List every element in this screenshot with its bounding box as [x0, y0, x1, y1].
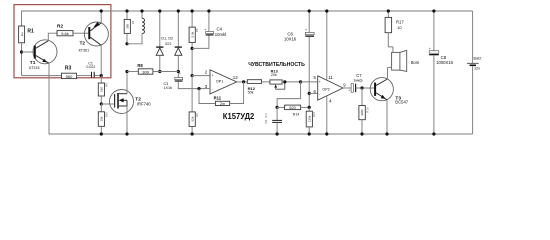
- node: top rail / R4: [125, 9, 128, 12]
- wire: top supply rail: [22, 11, 473, 26]
- node: top rail / T2: [100, 9, 103, 12]
- svg-text:1000X16: 1000X16: [436, 60, 453, 65]
- svg-text:560: 560: [66, 74, 73, 79]
- node: ground rail / C9: [276, 132, 279, 135]
- wire: OP2 output pin 9: [343, 87, 351, 89]
- inductor L1 (search coil): [127, 11, 145, 44]
- svg-text:180: 180: [100, 87, 104, 92]
- svg-text:OP1: OP1: [216, 80, 223, 84]
- svg-text:КТ315: КТ315: [29, 66, 40, 70]
- svg-text:62k: 62k: [190, 116, 194, 121]
- wire: bottom ground rail: [49, 64, 473, 134]
- svg-text:1м: 1м: [20, 33, 24, 37]
- selection frame (red): [14, 5, 111, 78]
- svg-text:50k: 50k: [248, 91, 254, 95]
- svg-text:R9: R9: [104, 83, 108, 87]
- resistor R5 (divider top): [189, 11, 199, 76]
- svg-text:10: 10: [397, 25, 402, 30]
- svg-text:OP2: OP2: [322, 87, 329, 91]
- resistor R11 2m: [214, 96, 230, 106]
- svg-text:R11: R11: [214, 96, 222, 101]
- node: top rail / C8: [432, 9, 435, 12]
- svg-text:13: 13: [233, 75, 238, 80]
- feedback wire: [199, 89, 215, 104]
- node: MOSFET gate junction: [100, 102, 103, 105]
- node: pot wiper tie: [283, 80, 286, 83]
- node: R4 / L1 junction: [125, 42, 128, 45]
- svg-text:4: 4: [329, 99, 332, 104]
- svg-text:12v: 12v: [474, 66, 480, 70]
- wire: T3 emitter to ground: [386, 100, 388, 134]
- capacitor C8 1000X16: [429, 11, 454, 134]
- resistor R1: [19, 26, 34, 43]
- node: top rail / pin 11: [325, 9, 328, 12]
- svg-text:R10: R10: [104, 111, 108, 117]
- capacitor C9 0,1 (bottom): [264, 107, 282, 134]
- feedback wire right: [230, 82, 244, 104]
- svg-text:R15: R15: [312, 111, 316, 117]
- resistor R17 10: [385, 11, 404, 47]
- wire: OP2 pin 4 to ground: [326, 96, 328, 134]
- node: top rail / L1: [140, 9, 143, 12]
- wire: branch down to R14 node: [277, 82, 301, 108]
- svg-text:8om: 8om: [411, 60, 420, 65]
- node: R14 / R15: [308, 106, 311, 109]
- wire: to OP2 -input: [309, 92, 318, 94]
- svg-text:+: +: [319, 80, 321, 84]
- wire: R3 to C1: [77, 75, 92, 77]
- svg-text:R6: R6: [195, 113, 199, 117]
- svg-text:R16: R16: [365, 107, 369, 113]
- svg-text:BC547: BC547: [395, 99, 408, 104]
- battery Bat2 12v: [467, 11, 481, 134]
- node: R14 / C6: [276, 106, 279, 109]
- svg-text:C7: C7: [356, 73, 362, 78]
- svg-text:0.022: 0.022: [86, 65, 95, 69]
- svg-text:5.6k: 5.6k: [61, 31, 69, 36]
- node: ground rail / R15: [308, 132, 311, 135]
- svg-text:10k: 10k: [100, 116, 104, 121]
- svg-text:D1, D2: D1, D2: [161, 37, 173, 41]
- svg-text:11: 11: [328, 75, 333, 80]
- svg-text:R17: R17: [396, 20, 404, 25]
- node: OP1 -input: [197, 87, 200, 90]
- wire: C1 to node: [95, 75, 102, 77]
- svg-text:20k: 20k: [271, 73, 277, 77]
- node: drain junction: [125, 70, 128, 73]
- node: OP2 -input: [308, 92, 311, 95]
- resistor R10: [98, 104, 108, 134]
- capacitor C1 0.022: [86, 61, 95, 77]
- wire: to OP2 +input: [301, 81, 318, 83]
- wire: gate node to MOSFET: [101, 103, 114, 105]
- svg-text:R5: R5: [195, 28, 199, 32]
- svg-text:R3: R3: [65, 65, 72, 71]
- transistor T1 KT315: [29, 40, 57, 70]
- svg-text:+: +: [429, 47, 431, 51]
- wire R1 bottom to base node: [21, 43, 23, 76]
- svg-text:10X16: 10X16: [284, 36, 297, 41]
- svg-text:620: 620: [289, 106, 295, 110]
- wire: T1 collector up to R2: [48, 33, 57, 41]
- node: OP2 +input branch: [299, 80, 302, 83]
- diode D1: [156, 11, 163, 72]
- wire: OP2 V+ pin 11: [326, 11, 328, 80]
- op-amp OP2: [314, 75, 344, 104]
- node: R5 / C4: [191, 47, 194, 50]
- svg-text:+: +: [348, 89, 350, 93]
- wire: MOSFET drain up: [126, 72, 128, 94]
- svg-text:R8: R8: [137, 63, 143, 68]
- svg-text:10mkf: 10mkf: [215, 32, 227, 37]
- node: T3 base / R16: [360, 86, 363, 89]
- svg-text:+: +: [212, 73, 214, 77]
- capacitor C3 1X16: [164, 72, 200, 90]
- node: top rail / R17: [387, 9, 390, 12]
- resistor R9 180: [98, 76, 108, 104]
- svg-text:R2: R2: [57, 24, 63, 30]
- svg-text:390: 390: [125, 24, 129, 29]
- svg-text:C8: C8: [441, 55, 447, 60]
- resistor R6 (divider bottom): [189, 76, 199, 134]
- wire: T3 collector up to speaker: [387, 67, 389, 79]
- svg-text:R14: R14: [293, 113, 300, 117]
- node: top rail / D1: [158, 9, 161, 12]
- node: top rail / C6: [308, 9, 311, 12]
- speaker 8om: [388, 47, 420, 72]
- wire: base node to T1: [22, 51, 34, 53]
- node: ground rail / C8: [432, 132, 435, 135]
- node: OP1 +input: [191, 74, 194, 77]
- node: D1 / R8 row: [158, 70, 161, 73]
- wire: T2 collector down: [100, 45, 102, 75]
- svg-text:+: +: [179, 72, 181, 76]
- svg-text:R1: R1: [27, 28, 34, 34]
- svg-text:T2: T2: [80, 41, 86, 47]
- wire: node to OP1 +input: [192, 75, 210, 77]
- capacitor C7 1mkf: [348, 73, 374, 93]
- wire: R2 to T2 base: [73, 32, 88, 34]
- svg-text:К157УД2: К157УД2: [223, 112, 255, 121]
- node: T2 collector / R9: [100, 74, 103, 77]
- svg-text:IRF740: IRF740: [137, 101, 151, 106]
- node: ground rail / pin 4: [325, 132, 328, 135]
- svg-text:430k: 430k: [360, 109, 364, 116]
- resistor R16 430k: [359, 88, 370, 134]
- node: ground rail / R6: [191, 132, 194, 135]
- resistor R2 5.6k: [57, 24, 73, 37]
- node: ground rail / R10: [100, 132, 103, 135]
- svg-text:521: 521: [165, 42, 171, 46]
- node: D2 / R8 row: [177, 70, 180, 73]
- svg-text:КТ361: КТ361: [79, 49, 90, 53]
- node: ground rail / T3 emitter: [385, 132, 388, 135]
- svg-text:5,6k: 5,6k: [190, 31, 194, 37]
- svg-text:2m: 2m: [220, 102, 225, 106]
- svg-text:+: +: [305, 28, 307, 32]
- wire: MOSFET source to ground: [126, 106, 128, 134]
- node: ground rail / R16: [360, 132, 363, 135]
- svg-text:ЧУВСТВИТЕЛЬНОСТЬ: ЧУВСТВИТЕЛЬНОСТЬ: [248, 62, 305, 68]
- resistor R3 560: [62, 65, 77, 79]
- svg-text:300: 300: [142, 69, 149, 74]
- svg-text:1мкф: 1мкф: [353, 79, 362, 83]
- potentiometer R13: [270, 69, 301, 90]
- resistor R12 50k: [247, 80, 270, 95]
- svg-text:C4: C4: [217, 26, 223, 31]
- capacitor C4 10mkf: [192, 11, 227, 48]
- wire: emitter row with R3, C1: [22, 75, 62, 77]
- node: top rail / D2: [177, 9, 180, 12]
- op-amp OP1: [205, 70, 238, 94]
- svg-text:R4: R4: [131, 20, 135, 24]
- transistor T2 KT361: [79, 22, 109, 53]
- resistor R14 620: [277, 105, 309, 116]
- wire: OP1 -input: [199, 88, 210, 90]
- svg-text:1X16: 1X16: [164, 86, 173, 90]
- resistor R4 (tank): [124, 11, 135, 44]
- capacitor C6 10X16 (top): [284, 11, 314, 107]
- transistor T3 BC547: [370, 78, 409, 105]
- node: OP1 output: [242, 80, 245, 83]
- svg-text:C9: C9: [264, 119, 268, 123]
- node: top rail / R5: [191, 9, 194, 12]
- svg-text:0,1: 0,1: [264, 113, 268, 117]
- svg-text:130k: 130k: [307, 115, 311, 122]
- svg-text:Bat2: Bat2: [474, 57, 482, 61]
- wire: T2 emitter to top rail: [100, 11, 102, 23]
- resistor R15 130k: [306, 107, 316, 134]
- wire: OP1 output: [237, 81, 248, 83]
- node: ground rail / source: [125, 132, 128, 135]
- resistor R8 300: [127, 63, 178, 74]
- node: top rail / C4: [207, 9, 210, 12]
- node: T1 base junction: [20, 50, 23, 53]
- transistor T2 IRF740 (MOSFET): [110, 90, 152, 114]
- diode D2: [175, 11, 182, 78]
